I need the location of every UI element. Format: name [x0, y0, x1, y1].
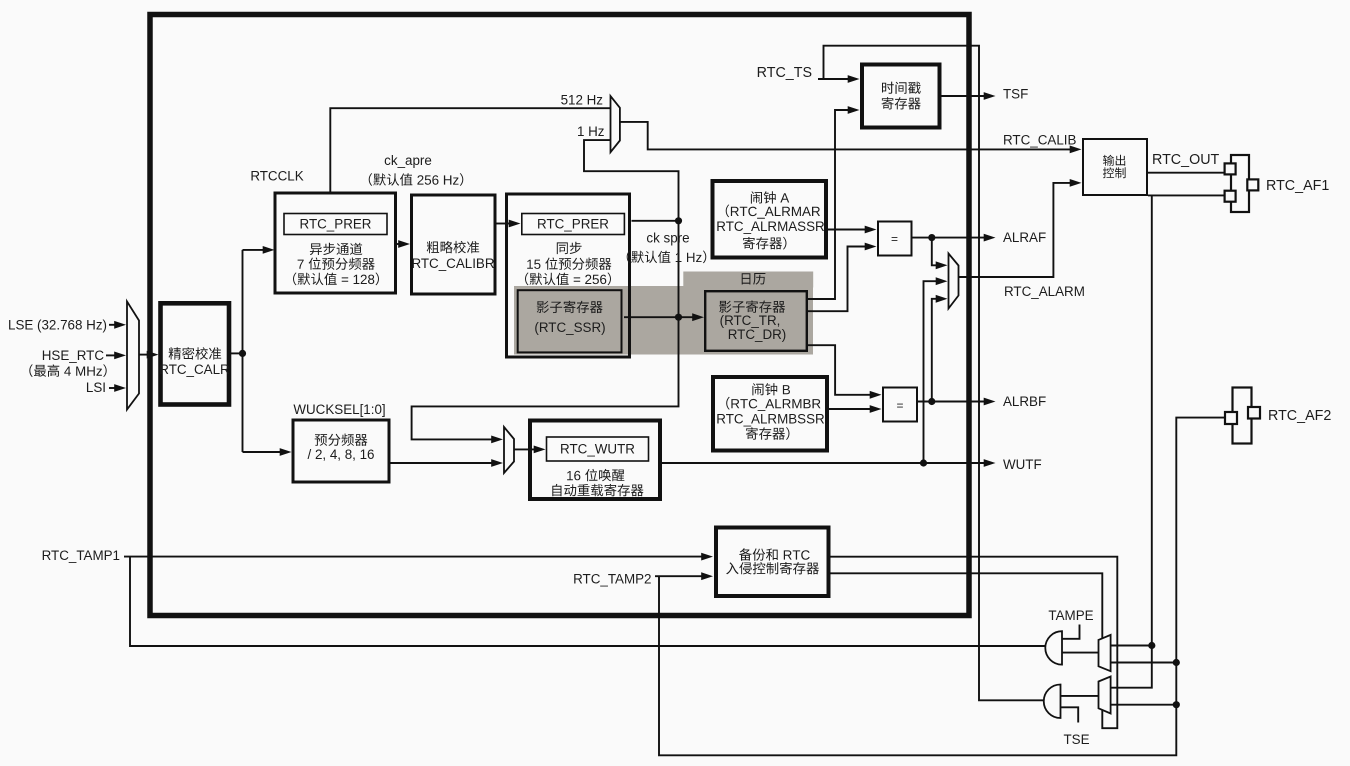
gate AND2 timestamp enable [1044, 685, 1061, 719]
wire RTC_CALR output to RTCCLK node [231, 250, 243, 452]
wire 1 Hz and ck_spre riser [412, 140, 679, 443]
box alarm B registers [713, 377, 827, 451]
label RTC_TAMP2 [573, 571, 651, 586]
svg-text:RTC_AF1: RTC_AF1 [1266, 178, 1329, 194]
svg-text:ck_apre: ck_apre [384, 153, 432, 168]
gate AND1 tamper enable [1045, 631, 1062, 664]
comparator B [883, 388, 917, 422]
box RTC_PRER sync 15-bit prescaler [507, 194, 630, 357]
svg-text:ck spre: ck spre [646, 231, 689, 246]
wire async to coarse calibration [397, 240, 410, 248]
box RTC_CALR smooth calibration [161, 303, 230, 404]
label ck_apre default [369, 173, 464, 186]
label WUTF [1003, 457, 1042, 472]
wire ALRAF output [913, 234, 996, 242]
wire AF2 riser to bottom rail [659, 418, 1225, 756]
wire AND1 output [1062, 652, 1099, 654]
label RTC_AF2 [1268, 408, 1331, 424]
node WUTF junction [920, 459, 927, 466]
box RTC_WUTR 16-bit wakeup auto-reload [530, 421, 660, 500]
svg-text:RTC_DR): RTC_DR) [728, 327, 787, 342]
wire TSF output [942, 92, 996, 100]
text timestamp box [882, 82, 921, 110]
wire mux U5 line 2 [1111, 662, 1177, 664]
wire shadow register to calendar [624, 313, 704, 321]
wire mux U2 output to RTC_CALIB [620, 122, 1082, 153]
wire mux to RTC_CALR [139, 351, 159, 359]
wire sync prescaler output ck_spre [632, 220, 679, 222]
svg-text:RTC_CALIBR: RTC_CALIBR [411, 256, 494, 271]
wire TAMPE tick [1062, 625, 1080, 639]
label ALRAF [1003, 230, 1046, 245]
wire LSE input [109, 321, 126, 329]
svg-text:HSE_RTC: HSE_RTC [42, 348, 105, 363]
wire WUTF output [662, 459, 996, 467]
svg-text:RTC_TAMP1: RTC_TAMP1 [42, 548, 120, 563]
wire coarse cal to sync prescaler [497, 220, 521, 228]
svg-text:512 Hz: 512 Hz [561, 93, 604, 108]
mux U2 512Hz/1Hz select [611, 96, 620, 152]
node calendar feed junction [675, 314, 682, 321]
wire ALRAF to alarm mux [932, 238, 948, 270]
svg-text:WUTF: WUTF [1003, 457, 1042, 472]
node RTCCLK junction [239, 350, 246, 357]
svg-text:RTC_PRER: RTC_PRER [537, 217, 609, 232]
wire mux U6 line 2 [1111, 704, 1177, 706]
wire calendar to comparator A [808, 243, 877, 312]
text backup tamper box [726, 548, 819, 574]
wire to async prescaler [243, 246, 275, 254]
label RTC_OUT [1152, 152, 1220, 168]
label RTC_CALIB [1003, 132, 1076, 147]
pin RTC_AF2 [1225, 388, 1260, 444]
node TAMPER mux1 output junction [1148, 642, 1155, 649]
text alarm A box [716, 191, 825, 249]
label WUCKSEL [293, 402, 385, 417]
comparator A [878, 222, 912, 256]
mux U3 wakeup clock select [504, 427, 514, 473]
wire alarm A to comparator A [828, 226, 877, 234]
box output control [1083, 139, 1147, 195]
box backup and RTC tamper control registers [716, 528, 829, 597]
label 1 Hz [577, 124, 605, 139]
node AF2 junction lower [1173, 701, 1180, 708]
wire RTC_OUT to AF1 pin [1148, 172, 1225, 174]
svg-text:TSF: TSF [1003, 87, 1028, 102]
box calendar shadow registers RTC_TR RTC_DR [705, 291, 807, 351]
svg-text:ALRAF: ALRAF [1003, 230, 1046, 245]
mux U1 clock-source select [127, 302, 139, 410]
text RTC_WUTR box [552, 442, 643, 497]
wire TSE tick [1061, 707, 1079, 722]
text output control box [1103, 155, 1126, 178]
svg-text:WUCKSEL[1:0]: WUCKSEL[1:0] [293, 402, 385, 417]
svg-text:TSE: TSE [1063, 732, 1089, 747]
text async prescaler box [293, 217, 379, 286]
wire RTC_TAMP2 input [655, 572, 713, 580]
svg-text:RTC_ALRMASSR: RTC_ALRMASSR [716, 219, 825, 234]
svg-text:LSI: LSI [86, 380, 106, 395]
wire RTC_TS input [818, 75, 860, 83]
label HSE max 4MHz [29, 364, 106, 377]
wire HSE_RTC input [106, 352, 126, 360]
node AF2 junction upper [1173, 659, 1180, 666]
wire LSI input [109, 384, 126, 392]
node ALRAF junction [928, 234, 935, 241]
calendar gray highlight band [514, 272, 813, 355]
wire ALRBF to alarm mux [932, 295, 948, 402]
label LSE [8, 317, 107, 332]
box RTC_PRER async 7-bit prescaler [275, 193, 396, 293]
wire RTC_TAMP1 down-around rail to TAMPE gate [130, 557, 1046, 646]
wire ALRBF output [917, 398, 996, 406]
text calendar box [719, 300, 786, 341]
svg-text:/ 2, 4, 8, 16: / 2, 4, 8, 16 [308, 447, 375, 462]
label calendar [742, 273, 766, 285]
wire RTC_ALARM to output control [959, 179, 1082, 277]
wire mux U3 to RTC_WUTR [514, 446, 546, 454]
wire to wakeup prescaler [243, 448, 292, 456]
svg-text:RTC_ALARM: RTC_ALARM [1004, 284, 1085, 299]
svg-text:TAMPE: TAMPE [1048, 608, 1093, 623]
wire RTC_TS loop and timestamp enable line [824, 46, 1045, 701]
svg-text:RTC_AF2: RTC_AF2 [1268, 408, 1331, 424]
label RTC_TAMP1 [42, 548, 120, 563]
label 512 Hz [561, 93, 604, 108]
svg-text:=: = [896, 399, 903, 413]
mux U5 tamper pin select [1099, 635, 1111, 671]
box coarse calibration RTC_CALIBR [412, 195, 496, 294]
mux U4 alarm output select [949, 254, 959, 309]
label equals B [896, 399, 903, 413]
svg-text:RTC_TAMP2: RTC_TAMP2 [573, 571, 651, 586]
svg-text:RTC_CALIB: RTC_CALIB [1003, 132, 1076, 147]
svg-text:RTC_ALRMBSSR: RTC_ALRMBSSR [716, 411, 825, 426]
box wakeup prescaler /2,4,8,16 [293, 420, 389, 482]
svg-text:RTC_OUT: RTC_OUT [1152, 152, 1220, 168]
box shadow register RTC_SSR [518, 290, 622, 352]
label ck_spre default [627, 251, 707, 264]
wire 512 Hz tap from async prescaler [330, 108, 610, 191]
node ck_spre junction [675, 217, 682, 224]
label TSF [1003, 87, 1028, 102]
label HSE_RTC [42, 348, 105, 363]
label TAMPE [1048, 608, 1093, 623]
wire backup reg output 2 to mux1 [831, 573, 1103, 638]
outer RTC block border [150, 15, 969, 616]
pin RTC_AF1 [1225, 155, 1259, 212]
box alarm A registers [713, 181, 827, 258]
svg-text:1 Hz: 1 Hz [577, 124, 605, 139]
label RTCCLK [250, 169, 303, 184]
wire calendar to timestamp [808, 106, 860, 299]
wire wakeup prescaler output [391, 459, 504, 467]
wire RTC_TAMP1 input [124, 553, 713, 561]
label RTC_TS [757, 65, 812, 81]
svg-text:RTC_PRER: RTC_PRER [300, 217, 372, 232]
svg-text:RTC_TS: RTC_TS [757, 65, 812, 81]
label ck_spre [646, 231, 689, 246]
label TSE [1063, 732, 1089, 747]
label equals A [891, 232, 898, 246]
text RTC_CALR box [159, 347, 230, 377]
wire AND2 output [1061, 695, 1099, 697]
wire mux U5 line 1 [1111, 645, 1152, 647]
box timestamp registers [862, 65, 940, 128]
text shadow register box [534, 301, 605, 335]
wire output control lower line and riser to TAMPER mux [1111, 195, 1225, 687]
svg-text:RTCCLK: RTCCLK [250, 169, 303, 184]
text sync prescaler box [525, 217, 611, 286]
node ALRBF junction [928, 398, 935, 405]
text wakeup prescaler box [308, 434, 375, 463]
svg-text:=: = [891, 232, 898, 246]
label LSI [86, 380, 106, 395]
wire backup reg output 1 wrap to mux2 [831, 557, 1118, 729]
label ALRBF [1003, 394, 1046, 409]
label ck_apre [384, 153, 432, 168]
label RTC_AF1 [1266, 178, 1329, 194]
wire WUTF riser to alarm mux [924, 277, 948, 463]
text alarm B box [716, 383, 825, 440]
svg-text:RTC_WUTR: RTC_WUTR [560, 442, 635, 457]
wire calendar to comparator B [808, 345, 882, 399]
svg-text:ALRBF: ALRBF [1003, 394, 1046, 409]
text coarse calibration box [411, 241, 494, 271]
svg-text:RTC_CALR: RTC_CALR [159, 362, 230, 377]
mux U6 timestamp pin select [1099, 677, 1111, 714]
svg-text:LSE (32.768 Hz): LSE (32.768 Hz) [8, 317, 107, 332]
svg-text:(RTC_SSR): (RTC_SSR) [534, 320, 605, 335]
wire alarm B to comparator B [829, 405, 882, 413]
label RTC_ALARM [1004, 284, 1085, 299]
